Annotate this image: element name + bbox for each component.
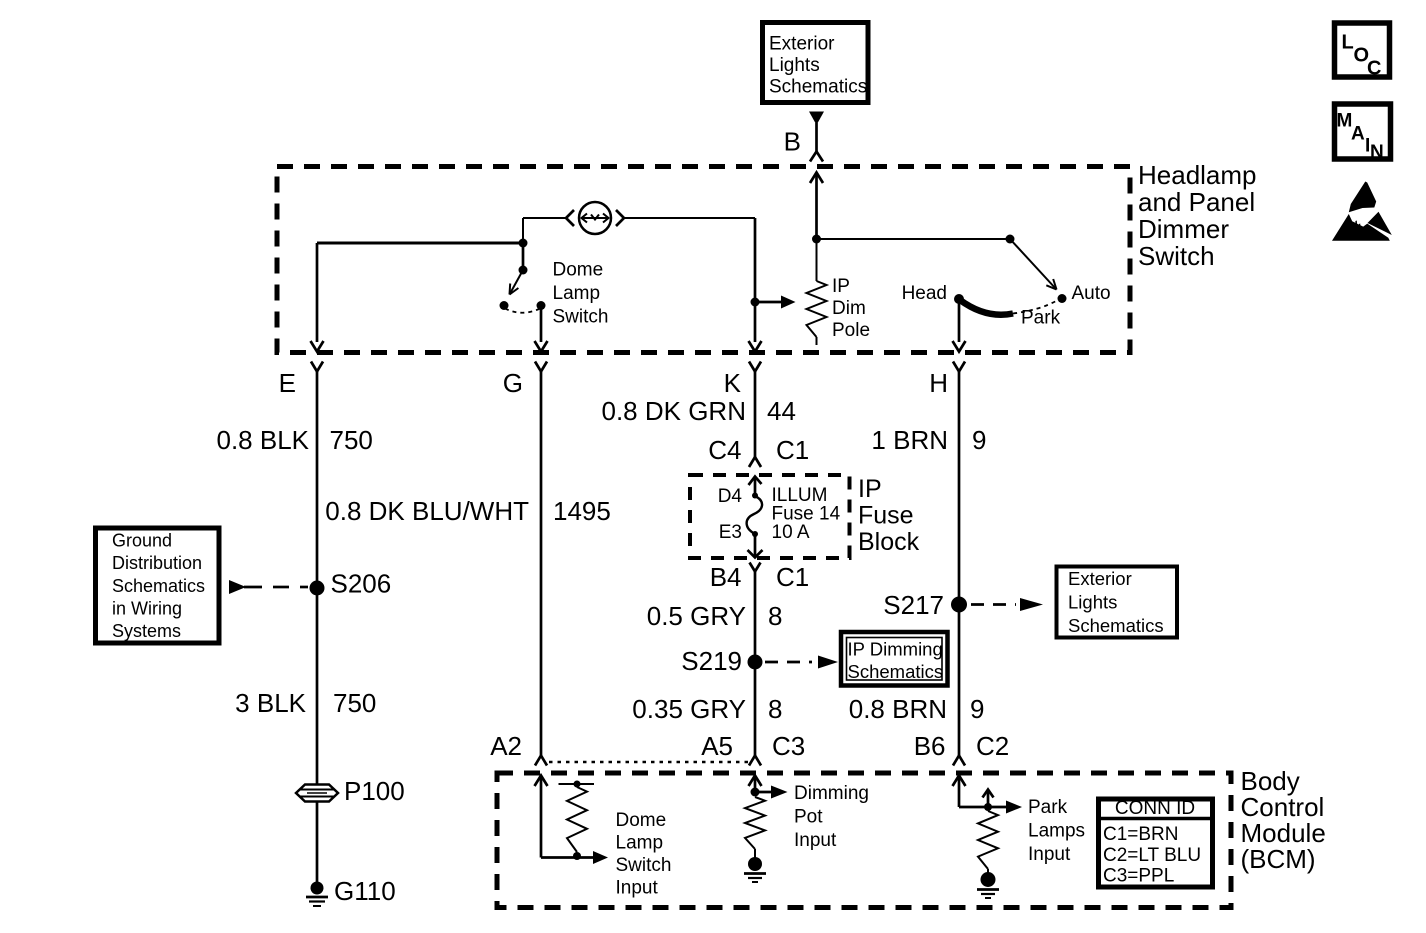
svg-text:A2: A2 bbox=[490, 731, 522, 761]
svg-text:B4: B4 bbox=[710, 562, 742, 592]
wire: 0.5 GRY 8 bbox=[754, 572, 757, 757]
connector exit G at headlamp box edge bbox=[535, 341, 548, 352]
reference box: Exterior Lights Schematics (top) bbox=[763, 23, 869, 103]
svg-text:8: 8 bbox=[768, 694, 782, 724]
svg-text:(BCM): (BCM) bbox=[1241, 844, 1316, 874]
svg-text:Park: Park bbox=[1021, 308, 1061, 329]
svg-text:A5: A5 bbox=[701, 731, 733, 761]
svg-text:S219: S219 bbox=[681, 646, 742, 676]
wire H: 1 BRN 9 bbox=[958, 372, 961, 757]
svg-text:Head: Head bbox=[902, 283, 947, 304]
svg-text:Dimming: Dimming bbox=[794, 783, 869, 804]
svg-text:S217: S217 bbox=[883, 590, 944, 620]
dome lamp switch input circuit bbox=[535, 776, 548, 787]
svg-text:C1=BRN: C1=BRN bbox=[1103, 824, 1179, 845]
resistor: IP Dim Pole bbox=[816, 239, 818, 281]
body control module dashed enclosure bbox=[497, 773, 1231, 908]
svg-text:G110: G110 bbox=[334, 876, 396, 906]
headlamp and panel dimmer switch dashed enclosure bbox=[277, 167, 1130, 353]
svg-text:Exterior: Exterior bbox=[1068, 568, 1132, 589]
svg-text:Exterior: Exterior bbox=[769, 34, 835, 55]
svg-text:Headlamp: Headlamp bbox=[1138, 160, 1257, 190]
wire K: 0.8 DK GRN 44 bbox=[754, 372, 757, 458]
wire: K riser bbox=[754, 218, 757, 342]
splice S206 bbox=[310, 581, 325, 596]
resistor (park lamps input) bbox=[978, 811, 998, 869]
thick contact arc Head-Park bbox=[960, 300, 1013, 315]
svg-text:0.8 DK GRN: 0.8 DK GRN bbox=[602, 396, 747, 426]
svg-text:Dim: Dim bbox=[832, 298, 866, 319]
LOC icon box bbox=[1335, 23, 1390, 77]
ground inside BCM (dimming) bbox=[748, 857, 762, 871]
connector arrow inside fuse block bbox=[749, 477, 762, 486]
svg-text:C3: C3 bbox=[772, 731, 805, 761]
svg-text:Lamp: Lamp bbox=[616, 833, 664, 854]
svg-text:in Wiring: in Wiring bbox=[112, 599, 182, 619]
connector B6/C2 into BCM bbox=[953, 756, 965, 766]
svg-text:Schematics: Schematics bbox=[1068, 615, 1164, 636]
svg-text:A: A bbox=[1351, 124, 1365, 145]
svg-text:750: 750 bbox=[330, 425, 373, 455]
svg-text:CONN ID: CONN ID bbox=[1115, 798, 1195, 819]
svg-text:Dome: Dome bbox=[553, 260, 604, 281]
node B connector arrow to Exterior Lights Schematics bbox=[809, 112, 824, 126]
svg-text:Lamp: Lamp bbox=[553, 283, 601, 304]
wire G: 0.8 DK BLU/WHT 1495 bbox=[540, 372, 543, 757]
fuse ILLUM Fuse 14 10 A bbox=[752, 493, 758, 499]
svg-text:Auto: Auto bbox=[1072, 283, 1111, 304]
svg-text:10 A: 10 A bbox=[772, 522, 810, 543]
svg-text:C4: C4 bbox=[708, 435, 741, 465]
svg-text:0.8 BLK: 0.8 BLK bbox=[216, 425, 309, 455]
connector exit K at headlamp box edge bbox=[749, 341, 762, 352]
ground inside BCM (park lamps) bbox=[981, 872, 996, 887]
resistor (dimming pot input) bbox=[745, 797, 765, 849]
svg-text:0.35 GRY: 0.35 GRY bbox=[632, 694, 746, 724]
svg-text:M: M bbox=[1337, 111, 1353, 132]
svg-text:0.5 GRY: 0.5 GRY bbox=[647, 601, 746, 631]
svg-text:Dimmer: Dimmer bbox=[1138, 214, 1229, 244]
reference box: IP Dimming Schematics bbox=[841, 632, 948, 686]
svg-text:Switch: Switch bbox=[1138, 241, 1215, 271]
svg-text:IP: IP bbox=[858, 475, 882, 503]
svg-text:3 BLK: 3 BLK bbox=[235, 688, 306, 718]
dimming pot input circuit bbox=[749, 776, 762, 787]
svg-text:E3: E3 bbox=[719, 522, 742, 543]
svg-text:Lamps: Lamps bbox=[1028, 821, 1085, 842]
svg-text:D4: D4 bbox=[718, 486, 743, 507]
connector B4/C1 below fuse block bbox=[750, 563, 761, 572]
svg-text:C1: C1 bbox=[776, 562, 809, 592]
svg-text:L: L bbox=[1342, 32, 1354, 54]
headlamp switch wiper arm bbox=[1010, 239, 1057, 290]
svg-text:Fuse: Fuse bbox=[858, 502, 914, 530]
svg-text:1495: 1495 bbox=[553, 496, 611, 526]
svg-text:C1: C1 bbox=[776, 435, 809, 465]
svg-text:E: E bbox=[279, 368, 296, 398]
wire E: 0.8 BLK 750 bbox=[316, 372, 319, 785]
wire: horizontal to headlamp switch bbox=[812, 235, 821, 244]
svg-text:Input: Input bbox=[1028, 844, 1071, 865]
svg-text:and Panel: and Panel bbox=[1138, 187, 1255, 217]
park lamps input circuit bbox=[953, 776, 966, 787]
svg-text:8: 8 bbox=[768, 601, 782, 631]
dashed reference arrow to Exterior Lights Schematics bbox=[971, 603, 1016, 606]
svg-text:Systems: Systems bbox=[112, 621, 181, 641]
connector fork at B crossing headlamp box edge bbox=[810, 152, 823, 162]
connector A5/C3 into BCM bbox=[749, 756, 761, 766]
svg-text:750: 750 bbox=[333, 688, 376, 718]
connector arrow inside headlamp box at B bbox=[810, 173, 823, 184]
connector row dotted link A2-A5 bbox=[549, 761, 748, 764]
svg-text:Switch: Switch bbox=[553, 307, 609, 328]
svg-text:Schematics: Schematics bbox=[848, 661, 944, 682]
ESD caution triangle icon bbox=[1332, 182, 1392, 241]
svg-text:C2=LT BLU: C2=LT BLU bbox=[1103, 845, 1201, 866]
svg-text:G: G bbox=[503, 368, 523, 398]
svg-text:Lights: Lights bbox=[769, 55, 820, 76]
wire: top horizontal to rheostat bbox=[523, 217, 566, 219]
svg-text:C2: C2 bbox=[976, 731, 1009, 761]
inline connector chevrons around rheostat bbox=[566, 210, 574, 226]
svg-text:B: B bbox=[784, 127, 801, 157]
MAIN icon box bbox=[1335, 104, 1391, 159]
svg-text:9: 9 bbox=[970, 694, 984, 724]
svg-text:Distribution: Distribution bbox=[112, 553, 202, 573]
dashed reference arrow from ground box to S206 bbox=[229, 580, 246, 594]
svg-text:Lights: Lights bbox=[1068, 592, 1117, 613]
svg-text:1 BRN: 1 BRN bbox=[871, 425, 948, 455]
svg-text:Park: Park bbox=[1028, 797, 1068, 818]
CONN ID table bbox=[1099, 799, 1213, 887]
reference box: Ground Distribution Schematics in Wiring Systems bbox=[96, 528, 220, 643]
svg-text:Input: Input bbox=[616, 878, 659, 899]
svg-text:Block: Block bbox=[858, 528, 920, 556]
grommet P100 bbox=[296, 785, 338, 802]
svg-text:C: C bbox=[1367, 58, 1381, 80]
svg-text:IP Dimming: IP Dimming bbox=[848, 639, 943, 660]
reference box: Exterior Lights Schematics (right) bbox=[1057, 567, 1178, 638]
svg-text:44: 44 bbox=[767, 396, 796, 426]
wire: H drop from Head bbox=[958, 299, 961, 342]
svg-text:N: N bbox=[1370, 142, 1384, 163]
resistor (dome lamp switch input) bbox=[559, 783, 595, 785]
svg-text:9: 9 bbox=[972, 425, 986, 455]
svg-text:Switch: Switch bbox=[616, 855, 672, 876]
rheostat circle symbol (dome lamp dimmer) bbox=[579, 202, 611, 234]
connector exit E at headlamp box edge bbox=[311, 341, 324, 352]
dome lamp switch bbox=[519, 239, 528, 248]
splice S217 bbox=[951, 597, 967, 613]
wire to ground bbox=[316, 802, 319, 884]
svg-text:H: H bbox=[929, 368, 948, 398]
connector A2 into BCM bbox=[535, 756, 547, 766]
splice S219 bbox=[748, 655, 763, 670]
dashed reference arrow to IP Dimming Schematics bbox=[765, 661, 812, 664]
arrow to IP Dim Pole bbox=[755, 301, 782, 304]
svg-text:B6: B6 bbox=[914, 731, 946, 761]
wire: left horizontal inside box bbox=[317, 242, 523, 245]
IP fuse block dashed enclosure bbox=[690, 475, 850, 558]
svg-text:Schematics: Schematics bbox=[769, 77, 867, 98]
svg-text:Pot: Pot bbox=[794, 807, 823, 828]
svg-text:S206: S206 bbox=[331, 569, 392, 599]
svg-text:0.8 BRN: 0.8 BRN bbox=[849, 694, 947, 724]
small up arrow above junction bbox=[987, 792, 990, 807]
svg-text:P100: P100 bbox=[344, 776, 405, 806]
svg-text:C3=PPL: C3=PPL bbox=[1103, 866, 1174, 887]
svg-text:Dome: Dome bbox=[616, 810, 667, 831]
connector exit H at headlamp box edge bbox=[953, 341, 966, 352]
svg-text:Ground: Ground bbox=[112, 531, 172, 551]
svg-text:Schematics: Schematics bbox=[112, 576, 205, 596]
svg-text:Pole: Pole bbox=[832, 320, 870, 341]
svg-text:K: K bbox=[724, 368, 742, 398]
ground G110 bbox=[311, 882, 324, 895]
svg-text:0.8 DK BLU/WHT: 0.8 DK BLU/WHT bbox=[325, 496, 529, 526]
svg-text:IP: IP bbox=[832, 276, 850, 297]
svg-text:Input: Input bbox=[794, 830, 837, 851]
